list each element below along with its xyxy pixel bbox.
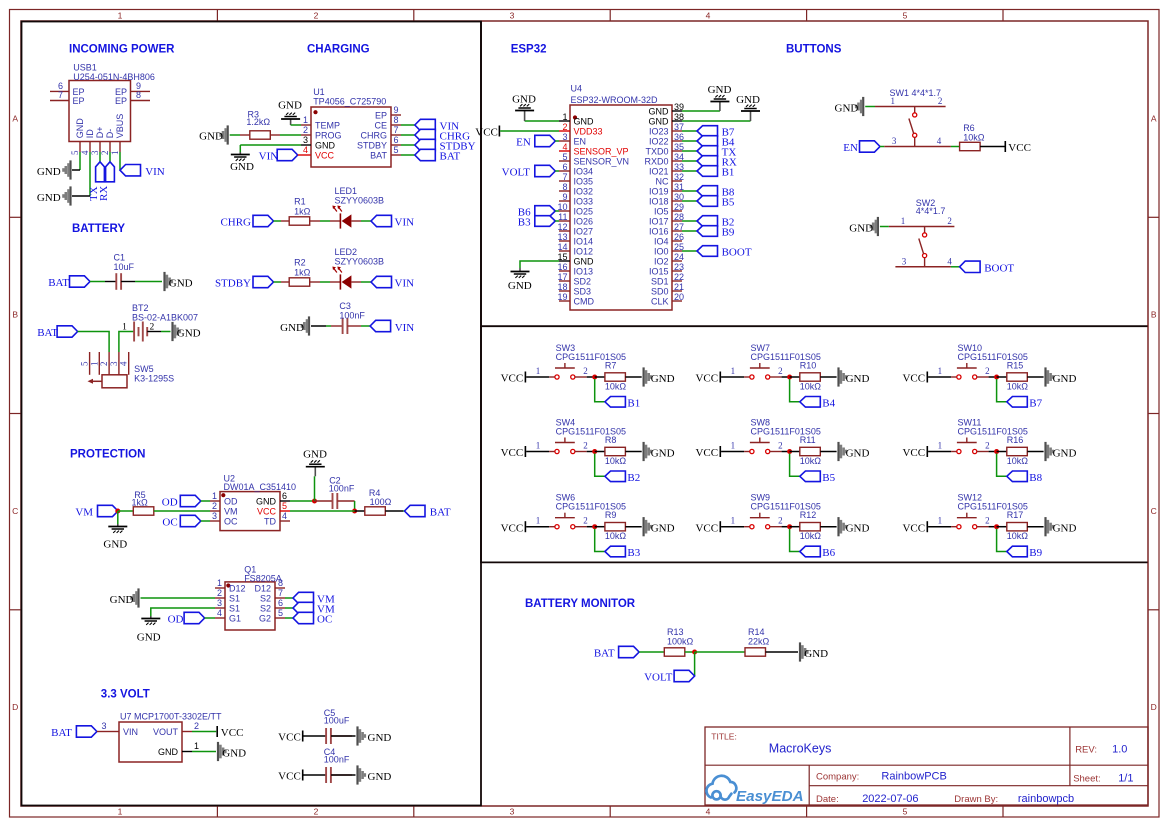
svg-text:1.0: 1.0 bbox=[1112, 744, 1127, 756]
svg-text:GND: GND bbox=[1053, 373, 1077, 385]
svg-text:2: 2 bbox=[100, 151, 110, 156]
SW8 pin number 1 bbox=[731, 441, 736, 451]
svg-text:INCOMING POWER: INCOMING POWER bbox=[69, 44, 175, 56]
wire SW6 pin2 to junction bbox=[575, 526, 595, 528]
svg-text:R1: R1 bbox=[294, 197, 306, 207]
svg-text:1: 1 bbox=[122, 322, 127, 332]
net flag VCC at C5 bbox=[278, 731, 303, 744]
SW2 pin number 3 bbox=[902, 256, 907, 266]
wire GND to C3 bbox=[311, 325, 331, 327]
wire junction to B1 bbox=[595, 379, 605, 402]
svg-text:5: 5 bbox=[562, 152, 567, 162]
svg-text:IO18: IO18 bbox=[649, 197, 669, 207]
svg-text:OC: OC bbox=[317, 614, 332, 626]
svg-text:S2: S2 bbox=[260, 594, 271, 604]
svg-text:C3: C3 bbox=[339, 301, 351, 311]
svg-text:CE: CE bbox=[374, 121, 387, 131]
capacitor C4 reference bbox=[324, 747, 336, 757]
svg-text:ESP32: ESP32 bbox=[511, 44, 547, 56]
capacitor C3 value 100nF bbox=[339, 311, 365, 321]
title BATTERY MONITOR bbox=[525, 598, 636, 610]
svg-text:VCC: VCC bbox=[501, 447, 524, 459]
resistor R1 body bbox=[289, 217, 310, 225]
title block label Drawn By bbox=[954, 794, 998, 805]
svg-text:IO12: IO12 bbox=[574, 247, 594, 257]
resistor R16 value 10kOhm bbox=[1007, 456, 1029, 466]
switch SW5 actuator arrow bbox=[88, 379, 103, 384]
wire VCC to SW10 pin1 bbox=[928, 376, 957, 378]
wire SW8 pin2 to junction bbox=[770, 451, 790, 453]
wire Q1 pin7 to VM bbox=[285, 597, 293, 599]
port B6 bbox=[800, 546, 836, 559]
svg-text:D: D bbox=[12, 702, 18, 712]
port B2 at U4 bbox=[697, 216, 734, 229]
svg-text:12: 12 bbox=[557, 222, 567, 232]
svg-text:OD: OD bbox=[224, 497, 238, 507]
svg-text:FS8205A: FS8205A bbox=[244, 573, 282, 583]
svg-text:8: 8 bbox=[394, 115, 399, 125]
SW1 pin number 4 bbox=[937, 136, 942, 146]
svg-text:14: 14 bbox=[557, 242, 567, 252]
net flag VCC at SW11 bbox=[902, 446, 928, 459]
wire junction to B8 bbox=[997, 454, 1007, 477]
svg-text:10kΩ: 10kΩ bbox=[800, 531, 822, 541]
svg-text:10kΩ: 10kΩ bbox=[605, 456, 627, 466]
svg-text:1: 1 bbox=[731, 516, 736, 526]
svg-text:2: 2 bbox=[212, 501, 217, 511]
svg-text:VCC: VCC bbox=[695, 522, 718, 534]
junction SW10-R15-B7 bbox=[994, 375, 999, 380]
svg-text:B9: B9 bbox=[722, 227, 735, 239]
svg-text:5: 5 bbox=[70, 150, 80, 155]
wire junction to R7 bbox=[595, 376, 605, 378]
ground flag at R10 bbox=[837, 367, 869, 386]
svg-text:IO15: IO15 bbox=[649, 267, 669, 277]
wire VCC to SW4 pin1 bbox=[526, 451, 555, 453]
junction SW4-R8-B2 bbox=[592, 449, 597, 454]
SW2 pin number 2 bbox=[947, 216, 952, 226]
IC U2 pin1 dot bbox=[221, 493, 225, 497]
IC U2 value DW01A_C351410 bbox=[224, 482, 297, 492]
svg-text:2022-07-06: 2022-07-06 bbox=[862, 793, 918, 805]
switch SW11 value CPG1511F01S05 bbox=[958, 426, 1028, 436]
wire SW2 pin4 to BOOT bbox=[951, 266, 960, 268]
resistor R9 body bbox=[605, 523, 626, 531]
svg-text:RX: RX bbox=[98, 186, 110, 201]
junction SW9-R12-B6 bbox=[787, 524, 792, 529]
svg-text:BATTERY MONITOR: BATTERY MONITOR bbox=[525, 598, 636, 610]
switch SW2 value 4*4*1.7 bbox=[916, 206, 946, 216]
capacitor C2 value 100nF bbox=[329, 484, 355, 494]
svg-text:10kΩ: 10kΩ bbox=[1007, 382, 1029, 392]
svg-text:1kΩ: 1kΩ bbox=[294, 206, 311, 216]
svg-text:1: 1 bbox=[536, 441, 541, 451]
wire VCC to C4 bbox=[304, 774, 327, 776]
title CHARGING bbox=[307, 44, 370, 56]
SW10 pin number 2 bbox=[985, 366, 990, 376]
USB1 pin name EP left bot bbox=[73, 96, 85, 106]
wire Q1 pin5 to OC bbox=[285, 617, 293, 619]
svg-text:R17: R17 bbox=[1007, 510, 1024, 520]
svg-text:8: 8 bbox=[136, 90, 141, 100]
port B5 at U4 bbox=[697, 196, 735, 209]
port TX at U4 bbox=[697, 146, 736, 159]
U1 pin number 3 bbox=[303, 135, 308, 145]
svg-text:4: 4 bbox=[303, 145, 308, 155]
wire pin1 to VIN port bbox=[119, 152, 121, 170]
svg-text:5: 5 bbox=[278, 608, 283, 618]
switch SW6 value CPG1511F01S05 bbox=[556, 502, 626, 512]
title BUTTONS bbox=[786, 44, 842, 56]
resistor R8 reference bbox=[605, 435, 617, 445]
port B3 bbox=[605, 546, 641, 559]
title block label REV bbox=[1075, 745, 1097, 756]
switch SW10 reference bbox=[958, 343, 983, 353]
svg-text:B2: B2 bbox=[627, 472, 640, 484]
wire R10 to GND bbox=[820, 376, 836, 378]
resistor R3 body bbox=[250, 131, 270, 139]
svg-text:3: 3 bbox=[212, 511, 217, 521]
svg-text:R12: R12 bbox=[800, 510, 817, 520]
LED LED1 stubs bbox=[330, 220, 361, 222]
wire VOLT to U4 pin6 bbox=[555, 170, 559, 172]
svg-text:7: 7 bbox=[394, 125, 399, 135]
svg-text:GND: GND bbox=[110, 594, 134, 606]
port B2 bbox=[605, 471, 640, 484]
resistor R11 body bbox=[800, 447, 821, 455]
ground flag at BT2 bbox=[171, 322, 200, 341]
port B4 at U4 bbox=[697, 136, 735, 149]
resistor R4 reference bbox=[369, 488, 381, 498]
svg-text:EN: EN bbox=[843, 142, 858, 154]
svg-text:1kΩ: 1kΩ bbox=[132, 498, 149, 508]
svg-text:B1: B1 bbox=[627, 397, 640, 409]
port CHRG bbox=[220, 215, 273, 228]
svg-text:5: 5 bbox=[903, 11, 908, 21]
switch SW11 symbol bbox=[957, 438, 977, 454]
svg-text:6: 6 bbox=[282, 491, 287, 501]
LED LED1 value SZYY0603B bbox=[335, 196, 385, 206]
junction SW6-R9-B3 bbox=[592, 524, 597, 529]
svg-text:GND: GND bbox=[137, 632, 161, 644]
wire U4 pin15 to GND bbox=[520, 261, 559, 268]
svg-text:IO14: IO14 bbox=[574, 237, 594, 247]
resistor R7 reference bbox=[605, 361, 617, 371]
switch SW4 symbol bbox=[555, 438, 575, 454]
svg-text:STDBY: STDBY bbox=[357, 141, 387, 151]
svg-text:B5: B5 bbox=[822, 472, 835, 484]
SW4 pin number 2 bbox=[583, 441, 588, 451]
port B9 at U4 bbox=[697, 226, 735, 239]
switch SW10 symbol bbox=[957, 363, 977, 379]
svg-text:11: 11 bbox=[558, 212, 567, 222]
svg-text:GND: GND bbox=[574, 257, 595, 267]
svg-text:GND: GND bbox=[37, 192, 61, 204]
svg-text:3: 3 bbox=[90, 150, 100, 155]
wire R6 to VCC bbox=[980, 146, 1004, 148]
port BOOT at U4 bbox=[697, 246, 752, 259]
svg-text:26: 26 bbox=[674, 232, 684, 242]
svg-text:U7 MCP1700T-3302E/TT: U7 MCP1700T-3302E/TT bbox=[120, 712, 222, 722]
svg-text:USB1: USB1 bbox=[73, 63, 97, 73]
title block value MacroKeys bbox=[769, 742, 832, 756]
SW8 pin number 2 bbox=[778, 441, 783, 451]
ground flag at R16 bbox=[1044, 442, 1076, 461]
resistor R12 body bbox=[800, 523, 821, 531]
wire pin4 to GND bbox=[72, 152, 90, 196]
svg-text:4: 4 bbox=[80, 150, 90, 155]
U2 pin stubs bbox=[210, 501, 290, 521]
svg-text:VIN: VIN bbox=[259, 151, 279, 163]
port B3 at U4 bbox=[518, 216, 556, 229]
wire U1 pin3 to GND bbox=[240, 145, 301, 152]
svg-text:ESP32-WROOM-32D: ESP32-WROOM-32D bbox=[571, 95, 659, 105]
svg-text:B9: B9 bbox=[1029, 547, 1042, 559]
svg-text:1kΩ: 1kΩ bbox=[294, 267, 311, 277]
wire R16 to GND bbox=[1027, 451, 1043, 453]
svg-text:1: 1 bbox=[562, 112, 567, 122]
svg-text:VIN: VIN bbox=[145, 166, 165, 178]
switch SW4 value CPG1511F01S05 bbox=[556, 426, 626, 436]
svg-text:R6: R6 bbox=[963, 123, 975, 133]
junction SW11-R16-B8 bbox=[994, 449, 999, 454]
connector USB1 reference USB1 bbox=[73, 63, 97, 73]
U2 pin number 2 bbox=[212, 501, 217, 511]
svg-text:OD: OD bbox=[162, 497, 178, 509]
switch SW12 reference bbox=[958, 493, 983, 503]
port VIN at C3 bbox=[370, 320, 414, 334]
switch SW9 reference bbox=[751, 493, 771, 503]
svg-text:B4: B4 bbox=[822, 397, 835, 409]
switch SW4 reference bbox=[556, 417, 576, 427]
title BATTERY bbox=[72, 223, 125, 235]
svg-text:SZYY0603B: SZYY0603B bbox=[335, 196, 385, 206]
svg-text:BAT: BAT bbox=[440, 151, 461, 163]
port BAT at C1 bbox=[48, 276, 90, 289]
connector USB1 value U254-051N-4BH806 bbox=[73, 72, 155, 82]
ground flag at R15 bbox=[1044, 367, 1076, 386]
svg-text:GND: GND bbox=[1053, 523, 1077, 535]
port EN at SW1 bbox=[843, 141, 880, 154]
svg-text:100nF: 100nF bbox=[324, 755, 350, 765]
wire R4 to BAT bbox=[385, 510, 404, 512]
resistor R4 body bbox=[365, 507, 386, 515]
SW7 pin number 1 bbox=[731, 366, 736, 376]
svg-text:GND: GND bbox=[1053, 447, 1077, 459]
svg-text:3: 3 bbox=[510, 11, 515, 21]
svg-text:BATTERY: BATTERY bbox=[72, 223, 125, 235]
resistor R14 reference bbox=[748, 627, 765, 637]
wire OC to U2 pin3 bbox=[201, 520, 210, 522]
ground flag at R8 bbox=[643, 442, 675, 461]
wire STDBY to R2 bbox=[274, 281, 282, 283]
svg-text:3: 3 bbox=[303, 135, 308, 145]
svg-text:GND: GND bbox=[37, 166, 61, 178]
wire U4 to port B5 bbox=[682, 200, 697, 202]
USB1 pin number 6 bbox=[58, 81, 63, 91]
svg-text:17: 17 bbox=[557, 272, 567, 282]
switch SW5 body bbox=[102, 375, 127, 388]
wire R3 to U1 pin2 bbox=[280, 134, 301, 136]
ground flag at C5 bbox=[356, 726, 391, 745]
svg-text:23: 23 bbox=[674, 262, 684, 272]
wire LED2 to VIN bbox=[361, 281, 371, 283]
svg-text:B5: B5 bbox=[722, 197, 735, 209]
wire R15 to GND bbox=[1027, 376, 1043, 378]
USB1 bottom pin names GND ID D+ D- VBUS bbox=[75, 114, 125, 139]
resistor R5 value 1kOhm bbox=[132, 498, 149, 508]
svg-text:7: 7 bbox=[278, 588, 283, 598]
wire OD to U2 pin1 bbox=[201, 500, 210, 502]
port STDBY at U1 bbox=[415, 139, 476, 152]
svg-text:D12: D12 bbox=[254, 584, 271, 594]
capacitor C2 symbol bbox=[315, 493, 355, 509]
ground flag at R17 bbox=[1044, 517, 1076, 536]
port BAT at monitor bbox=[594, 646, 639, 659]
switch SW6 reference bbox=[556, 493, 576, 503]
LED LED2 value SZYY0603B bbox=[335, 257, 385, 267]
wire pin3 to TX port bbox=[99, 152, 101, 162]
svg-text:U4: U4 bbox=[571, 84, 583, 94]
svg-text:GND: GND bbox=[278, 100, 302, 112]
port B4 bbox=[800, 397, 836, 410]
wire R17 to GND bbox=[1027, 526, 1043, 528]
U2 pin number 1 bbox=[212, 491, 217, 501]
IC U1 pin1 dot bbox=[313, 110, 317, 114]
svg-text:IO17: IO17 bbox=[649, 217, 669, 227]
R3 stubs bbox=[240, 134, 280, 136]
svg-text:3.3 VOLT: 3.3 VOLT bbox=[101, 689, 150, 701]
LED LED2 symbol bbox=[332, 267, 351, 290]
port RX at U4 bbox=[697, 156, 737, 169]
U4 pin numbers bbox=[557, 102, 684, 302]
svg-text:2: 2 bbox=[194, 721, 199, 731]
wire junction to B5 bbox=[790, 454, 800, 477]
battery BT2 reference bbox=[132, 303, 149, 313]
svg-text:A: A bbox=[12, 114, 18, 124]
wire VM to GND bbox=[117, 511, 119, 524]
U1 pin name BAT bbox=[370, 151, 387, 161]
ground flag at C4 bbox=[356, 765, 391, 784]
title block value 1.0 bbox=[1112, 744, 1127, 756]
svg-text:6: 6 bbox=[394, 135, 399, 145]
svg-text:1/1: 1/1 bbox=[1118, 773, 1133, 785]
port CHRG at U1 bbox=[415, 129, 470, 142]
wire U7 pin2 to VCC bbox=[192, 731, 216, 733]
U1 pin name STDBY bbox=[357, 141, 387, 151]
svg-text:IO22: IO22 bbox=[649, 137, 669, 147]
wire VCC to SW9 pin1 bbox=[721, 526, 750, 528]
svg-text:GND: GND bbox=[849, 222, 873, 234]
svg-text:SZYY0603B: SZYY0603B bbox=[335, 257, 385, 267]
svg-text:21: 21 bbox=[674, 282, 684, 292]
USB1 pin name EP left top bbox=[73, 87, 85, 97]
switch SW3 value CPG1511F01S05 bbox=[556, 352, 626, 362]
ground flag at R11 bbox=[837, 442, 869, 461]
capacitor C1 symbol bbox=[105, 273, 135, 290]
U7 pin name VOUT bbox=[153, 727, 179, 737]
svg-text:VCC: VCC bbox=[475, 127, 498, 139]
capacitor C5 symbol bbox=[326, 728, 352, 744]
svg-text:4: 4 bbox=[947, 256, 952, 266]
LED LED2 reference bbox=[335, 247, 358, 257]
resistor R13 reference bbox=[667, 627, 684, 637]
port B7 bbox=[1007, 397, 1043, 410]
U2 pin name OC bbox=[224, 517, 238, 527]
port B9 bbox=[1007, 546, 1043, 559]
LED LED2 stubs bbox=[330, 281, 361, 283]
resistor R15 body bbox=[1007, 373, 1028, 381]
IC U2 body bbox=[220, 492, 280, 531]
ground flag at C1 bbox=[163, 272, 192, 291]
port B1 at U4 bbox=[697, 166, 734, 179]
wire B3 to U4 pin11 bbox=[555, 220, 559, 222]
svg-text:13: 13 bbox=[557, 232, 567, 242]
svg-text:IO21: IO21 bbox=[649, 167, 669, 177]
resistor R3 value 1.2kOhm bbox=[246, 117, 270, 127]
svg-text:1: 1 bbox=[891, 96, 896, 106]
resistor R11 reference bbox=[800, 435, 816, 445]
svg-text:B3: B3 bbox=[518, 217, 531, 229]
svg-text:10kΩ: 10kΩ bbox=[800, 382, 822, 392]
wire junction to R11 bbox=[790, 451, 800, 453]
svg-text:EP: EP bbox=[73, 96, 85, 106]
ground flag at SW1 bbox=[835, 97, 865, 116]
wire GND to Q1 pin2 bbox=[141, 597, 216, 599]
svg-text:1: 1 bbox=[217, 578, 222, 588]
svg-text:REV:: REV: bbox=[1075, 745, 1097, 756]
wire GND to SW2 pin1 bbox=[880, 226, 889, 228]
wire U4 pin1 to GND bbox=[525, 120, 559, 122]
wire junction to R14 bbox=[695, 651, 745, 653]
U1 pin name EP bbox=[375, 111, 387, 121]
battery BT2 pin number 1 bbox=[122, 322, 127, 332]
SW6 pin number 1 bbox=[536, 516, 541, 526]
ground above U4 pin1 bbox=[512, 94, 536, 122]
svg-text:B8: B8 bbox=[1029, 472, 1042, 484]
svg-text:GND: GND bbox=[512, 94, 536, 106]
title block borders bbox=[705, 727, 1148, 805]
svg-text:1: 1 bbox=[901, 216, 906, 226]
wire GND to R3 bbox=[230, 134, 240, 136]
port BAT at R4 bbox=[405, 505, 451, 518]
svg-text:B7: B7 bbox=[1029, 397, 1042, 409]
wire junction to R10 bbox=[790, 376, 800, 378]
svg-text:GND: GND bbox=[368, 732, 392, 744]
svg-text:2: 2 bbox=[778, 516, 783, 526]
U1 pin name CHRG bbox=[361, 131, 388, 141]
resistor R5 body bbox=[133, 507, 154, 515]
wire VM to R5 bbox=[118, 510, 133, 512]
U1 pin stubs bbox=[301, 115, 401, 155]
wire junction to R9 bbox=[595, 526, 605, 528]
battery BT2 value BS-02-A1BK007 bbox=[132, 313, 198, 323]
SW9 pin number 2 bbox=[778, 516, 783, 526]
svg-text:VOLT: VOLT bbox=[502, 167, 531, 179]
Q1 pin names bbox=[229, 584, 271, 624]
IC U4 body bbox=[570, 105, 672, 310]
wire SW11 pin2 to junction bbox=[977, 451, 997, 453]
svg-text:CHARGING: CHARGING bbox=[307, 44, 370, 56]
port VIN at LED2 bbox=[371, 276, 414, 289]
svg-text:9: 9 bbox=[394, 105, 399, 115]
svg-text:PROG: PROG bbox=[315, 131, 342, 141]
svg-text:SD3: SD3 bbox=[574, 287, 592, 297]
svg-text:2: 2 bbox=[938, 96, 943, 106]
wire junction to B9 bbox=[997, 529, 1007, 552]
port VM bbox=[75, 505, 118, 518]
svg-text:4: 4 bbox=[217, 608, 222, 618]
